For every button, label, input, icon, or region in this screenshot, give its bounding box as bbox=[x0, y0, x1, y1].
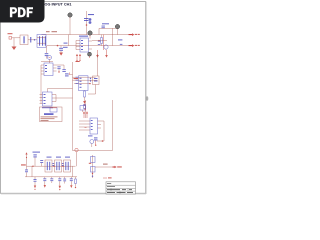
red dash bbox=[103, 177, 112, 178]
wire bbox=[28, 39, 37, 41]
label tick bbox=[120, 43, 123, 46]
label OPA340 bbox=[42, 107, 53, 108]
power arrow bbox=[76, 54, 78, 61]
wire bbox=[88, 85, 96, 95]
resistor R3 bbox=[101, 35, 103, 46]
svg-text:OG INPUT CH1: OG INPUT CH1 bbox=[45, 3, 72, 7]
capacitor C12 bbox=[33, 152, 41, 167]
pin arrow AIN- bbox=[129, 44, 140, 47]
ground arrow bbox=[83, 101, 86, 106]
pin wires U6 bbox=[79, 121, 104, 130]
pin numbers U2A bbox=[98, 41, 101, 45]
connector J1 bbox=[8, 33, 13, 39]
power arrow bbox=[79, 54, 81, 61]
wire box right bbox=[112, 100, 114, 151]
capacitor C11 bbox=[94, 137, 98, 146]
relay K1 bbox=[20, 35, 28, 45]
capacitor C16 bbox=[70, 177, 73, 188]
wire left bus bbox=[40, 65, 42, 104]
wire lower bbox=[25, 166, 77, 177]
capacitor C15 bbox=[58, 177, 61, 190]
label 100n bbox=[63, 47, 68, 48]
red tick bbox=[85, 127, 87, 129]
label 3V3 bbox=[21, 164, 26, 165]
diode D1 bbox=[30, 37, 35, 43]
power sphere G2 bbox=[88, 31, 92, 39]
part bbox=[25, 166, 28, 177]
coupling parts bbox=[40, 160, 63, 166]
pin wires U3 bbox=[41, 65, 57, 74]
ground arrow bbox=[96, 50, 99, 58]
capacitor C3 bbox=[57, 45, 63, 56]
capacitor C6 bbox=[57, 66, 60, 72]
power arrow bbox=[86, 111, 88, 118]
power flag bbox=[48, 56, 52, 64]
capacitor C4 bbox=[45, 46, 49, 59]
wire bbox=[97, 121, 104, 141]
diode D2 bbox=[90, 140, 94, 148]
capacitor C10 bbox=[80, 106, 86, 113]
label R2 100R bbox=[46, 31, 50, 32]
filter FL1 bbox=[37, 35, 46, 48]
wire bbox=[73, 79, 98, 81]
red dot bbox=[102, 140, 104, 142]
label R9 bbox=[103, 164, 108, 165]
op-amp U3 bbox=[44, 63, 53, 76]
wire bbox=[112, 28, 114, 45]
power sphere G3 bbox=[88, 52, 92, 58]
capacitor C7 bbox=[57, 65, 66, 72]
power port bbox=[75, 148, 78, 166]
power arrow bbox=[83, 111, 85, 118]
wire bus2 bbox=[47, 45, 129, 47]
pin wires U4 bbox=[40, 95, 57, 104]
power arrow bbox=[25, 152, 27, 166]
PDF badge bbox=[0, 0, 45, 23]
wire bbox=[41, 61, 53, 63]
pin wires U2A bbox=[76, 40, 107, 50]
capacitor C9 bbox=[99, 23, 118, 34]
wire bus3 bbox=[27, 165, 76, 167]
wire bbox=[97, 54, 99, 76]
transformer T2 bbox=[55, 160, 62, 172]
pin arrow AIN+ bbox=[129, 33, 140, 36]
label +5V bbox=[74, 78, 79, 79]
label T2 bbox=[56, 157, 61, 158]
note box bbox=[40, 107, 63, 122]
capacitor C8 bbox=[65, 72, 73, 76]
wire bbox=[95, 166, 113, 168]
label R4 bbox=[118, 39, 122, 40]
op-amp U4 bbox=[43, 92, 53, 106]
IC U6 bbox=[90, 118, 98, 134]
wire long vertical bbox=[72, 62, 74, 151]
wire VCC rail bbox=[103, 35, 105, 50]
transformer T3 bbox=[64, 160, 71, 172]
divider chain bbox=[89, 155, 95, 178]
IC U5 bbox=[79, 76, 92, 91]
wire bbox=[75, 41, 77, 50]
wire bbox=[73, 76, 96, 78]
label C3 bbox=[64, 43, 68, 44]
label C11 bbox=[88, 135, 93, 136]
resistor R12 bbox=[75, 177, 77, 188]
ground bbox=[12, 38, 17, 50]
page border bbox=[1, 2, 146, 194]
wire bbox=[12, 37, 20, 39]
capacitor C18 bbox=[63, 177, 66, 184]
pin ticks U5 bbox=[76, 77, 91, 85]
crystal Y1 bbox=[93, 76, 100, 85]
ground arrow bbox=[105, 50, 108, 58]
label T1 bbox=[47, 157, 52, 158]
capacitor C2 bbox=[84, 11, 94, 35]
wire bbox=[84, 100, 86, 118]
junction dots bbox=[32, 166, 63, 167]
transformer T1 bbox=[45, 160, 52, 172]
transistor Q1 bbox=[104, 45, 108, 50]
page background bbox=[0, 0, 149, 198]
label T3 bbox=[65, 157, 70, 158]
wire bus1 top bbox=[42, 34, 129, 36]
wire bbox=[68, 35, 70, 46]
wire bbox=[56, 95, 73, 102]
capacitor C17 bbox=[34, 177, 37, 190]
wire bbox=[74, 83, 90, 85]
capacitor C13 bbox=[43, 177, 46, 188]
label bbox=[76, 61, 80, 62]
wire bbox=[48, 89, 73, 93]
capacitor C14 bbox=[50, 177, 53, 183]
power sphere G1 bbox=[68, 13, 72, 35]
wire box bottom bbox=[73, 150, 113, 152]
op-amp U2A bbox=[79, 36, 89, 52]
pin arrow VREF bbox=[113, 166, 122, 169]
title block bbox=[106, 182, 136, 194]
resistor R5 bbox=[84, 91, 86, 102]
power sphere G4 bbox=[115, 24, 119, 34]
